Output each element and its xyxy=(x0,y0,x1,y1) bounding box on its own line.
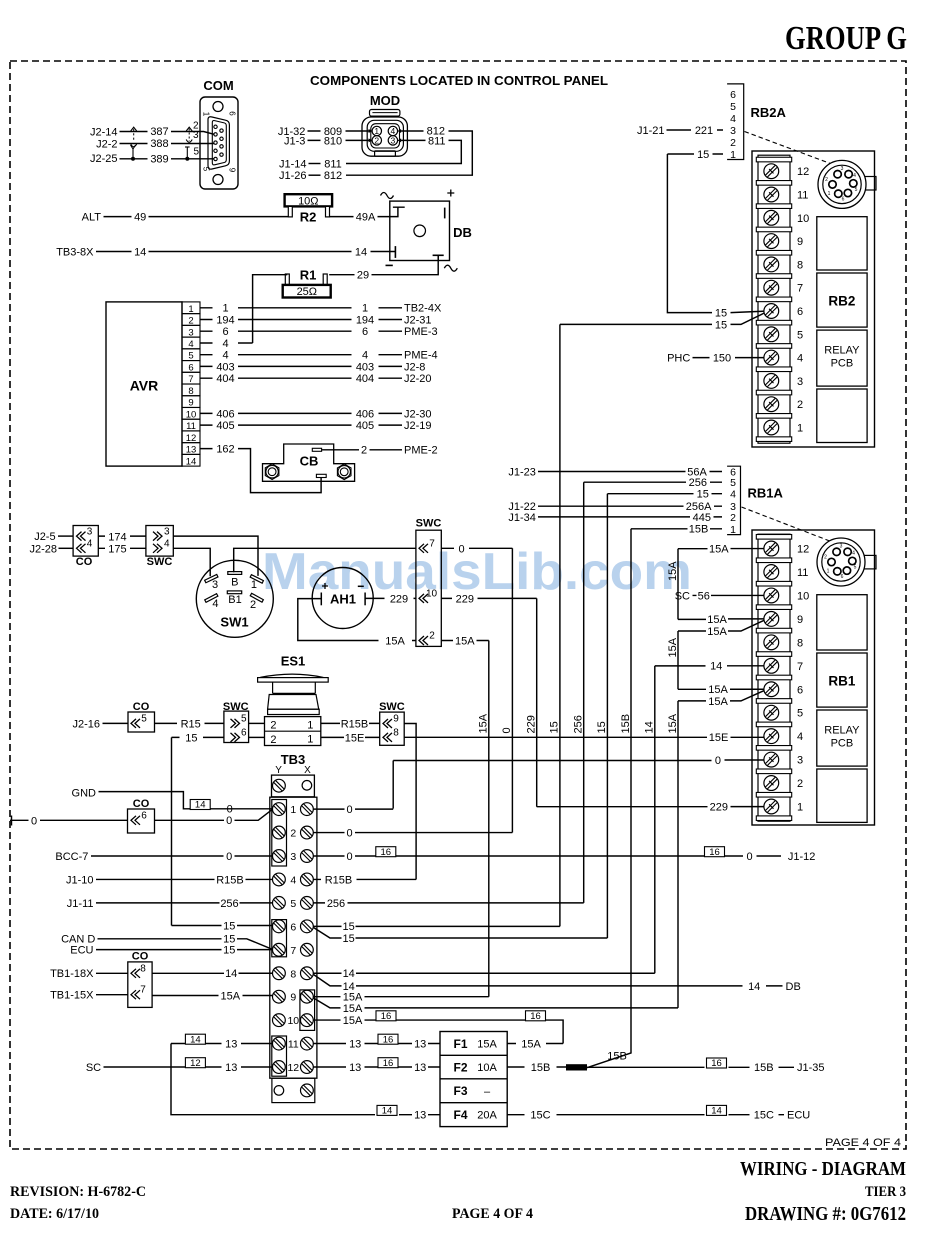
svg-text:229: 229 xyxy=(456,593,474,605)
svg-text:6: 6 xyxy=(290,921,296,933)
svg-text:4: 4 xyxy=(730,489,736,501)
svg-text:7: 7 xyxy=(290,945,296,957)
svg-text:15: 15 xyxy=(342,921,354,933)
svg-text:405: 405 xyxy=(216,420,234,432)
svg-text:15: 15 xyxy=(185,732,197,744)
wire J1-32 809 to MOD pin1 xyxy=(308,130,370,132)
fuse block F1-F4 body xyxy=(440,1032,507,1127)
svg-text:15A: 15A xyxy=(667,561,679,581)
svg-text:F1: F1 xyxy=(454,1037,468,1051)
svg-text:3: 3 xyxy=(391,136,396,146)
svg-text:256: 256 xyxy=(573,715,585,733)
wire J1-23 56A to RB1A-6 xyxy=(538,471,722,473)
svg-text:1: 1 xyxy=(730,524,736,536)
wire J1-14 811 label row xyxy=(309,163,321,165)
svg-text:AH1: AH1 xyxy=(330,592,356,607)
connector SWC block (9/8) xyxy=(380,712,405,745)
pushbutton ES1 stem xyxy=(273,682,316,693)
svg-text:405: 405 xyxy=(356,420,374,432)
svg-text:49: 49 xyxy=(134,212,146,224)
svg-text:15B: 15B xyxy=(607,1051,627,1063)
svg-text:10: 10 xyxy=(797,590,809,602)
terminal block TB3 body xyxy=(270,797,317,1078)
svg-text:7: 7 xyxy=(140,985,146,996)
svg-text:PCB: PCB xyxy=(831,358,854,370)
svg-text:3: 3 xyxy=(730,125,736,137)
connector RB1A bracket xyxy=(727,466,740,534)
svg-text:4: 4 xyxy=(164,539,170,550)
svg-text:5: 5 xyxy=(241,713,247,724)
wire CO5 R15 to SWC5 xyxy=(155,722,224,724)
svg-text:Y: Y xyxy=(275,765,282,776)
svg-text:J2-16: J2-16 xyxy=(72,718,100,730)
svg-text:WIRING - DIAGRAM: WIRING - DIAGRAM xyxy=(740,1158,906,1180)
svg-text:2: 2 xyxy=(797,778,803,790)
wire TB3-1 0 riser xyxy=(392,761,394,809)
svg-text:15C: 15C xyxy=(530,1110,550,1122)
pushbutton ES1 cap xyxy=(260,674,323,677)
svg-text:2: 2 xyxy=(730,512,736,524)
svg-text:15A: 15A xyxy=(708,696,728,708)
svg-text:9: 9 xyxy=(797,614,803,626)
svg-text:13: 13 xyxy=(414,1110,426,1122)
wire AVR 405 to J2-19 xyxy=(200,424,402,426)
svg-text:2: 2 xyxy=(270,734,276,746)
wire PHC 150 to RB2 t4 xyxy=(693,357,764,359)
svg-text:R15B: R15B xyxy=(325,874,353,886)
svg-text:ES1: ES1 xyxy=(281,654,306,669)
svg-text:14: 14 xyxy=(711,1106,722,1117)
svg-text:15A: 15A xyxy=(667,637,679,657)
svg-text:8: 8 xyxy=(797,259,803,271)
wire SWC10 to bus 229 xyxy=(441,597,536,599)
svg-text:3: 3 xyxy=(841,166,844,172)
wire J2-2 to COM pin3 (388) xyxy=(120,143,215,145)
svg-text:TB1-18X: TB1-18X xyxy=(50,968,94,980)
wire CO6 0 to TB3-1 diagonal xyxy=(155,809,273,820)
wire 14 to RB1 t7 xyxy=(655,665,764,667)
svg-text:10A: 10A xyxy=(477,1062,497,1074)
svg-text:TB3-8X: TB3-8X xyxy=(56,246,94,258)
svg-text:5: 5 xyxy=(854,565,857,571)
breaker CB bottom terminal xyxy=(316,474,326,477)
relay board RB1 inner box 2 (RB1) xyxy=(817,653,867,707)
wire MOD pin4 to J1-26 (812) xyxy=(346,131,472,175)
svg-text:15: 15 xyxy=(697,489,709,501)
wire TB3-8X 14 to DB xyxy=(96,251,395,253)
svg-text:BCC-7: BCC-7 xyxy=(55,851,88,863)
svg-text:RELAY: RELAY xyxy=(824,345,860,357)
svg-text:14: 14 xyxy=(225,968,237,980)
wire AVR 6 to PME-3 xyxy=(200,330,402,332)
wire J2-16 to CO5 xyxy=(103,722,129,724)
svg-text:0: 0 xyxy=(458,543,464,555)
svg-text:8: 8 xyxy=(140,963,146,974)
svg-text:RB1A: RB1A xyxy=(748,486,784,501)
svg-text:2: 2 xyxy=(361,445,367,457)
svg-text:1: 1 xyxy=(828,191,831,197)
wire CO8 14 to TB3-8 xyxy=(152,972,272,974)
svg-text:4: 4 xyxy=(797,731,803,743)
svg-text:1: 1 xyxy=(362,303,368,315)
svg-text:387: 387 xyxy=(150,126,168,138)
svg-text:15: 15 xyxy=(549,721,561,733)
breaker CB left lug xyxy=(265,464,279,480)
svg-text:229: 229 xyxy=(526,715,538,733)
svg-text:SC: SC xyxy=(675,590,690,602)
switch SW1 body xyxy=(196,560,273,637)
svg-text:9: 9 xyxy=(228,168,237,173)
svg-text:J1-3: J1-3 xyxy=(284,136,305,148)
svg-text:194: 194 xyxy=(356,314,374,326)
svg-text:6: 6 xyxy=(797,684,803,696)
svg-text:SWC: SWC xyxy=(223,701,249,713)
svg-text:–: – xyxy=(484,1086,491,1098)
svg-text:TB1-15X: TB1-15X xyxy=(50,990,94,1002)
svg-text:2: 2 xyxy=(825,177,828,183)
svg-text:0: 0 xyxy=(746,851,752,863)
svg-text:15: 15 xyxy=(596,721,608,733)
svg-text:811: 811 xyxy=(324,158,342,170)
wire F4 15C to ECU xyxy=(507,1114,784,1116)
connector COM pins xyxy=(214,125,217,128)
wire SW1 B to SWC7 (0 net) xyxy=(234,548,416,572)
svg-text:15A: 15A xyxy=(478,713,490,733)
wire GND to TB3-1 xyxy=(99,792,273,809)
svg-text:13: 13 xyxy=(414,1062,426,1074)
svg-text:6: 6 xyxy=(730,89,736,101)
pushbutton ES1 contact block xyxy=(265,717,321,746)
svg-text:PCB: PCB xyxy=(831,738,854,750)
breaker CB top terminal xyxy=(312,448,321,451)
svg-text:DRAWING #: 0G7612: DRAWING #: 0G7612 xyxy=(745,1203,906,1225)
connector CO block (8/7) xyxy=(128,962,152,1008)
svg-text:5: 5 xyxy=(730,477,736,489)
svg-text:MOD: MOD xyxy=(370,93,400,108)
svg-text:SC: SC xyxy=(86,1062,101,1074)
svg-text:15E: 15E xyxy=(709,732,729,744)
wire AVR pin13 162 to CB xyxy=(200,449,321,493)
svg-text:ALT: ALT xyxy=(82,212,102,224)
svg-text:F4: F4 xyxy=(454,1108,468,1122)
svg-text:10: 10 xyxy=(797,213,809,225)
wire AVR 406 to J2-30 xyxy=(200,412,402,414)
hourmeter AH1 terminals xyxy=(320,593,322,606)
svg-text:RELAY: RELAY xyxy=(824,725,860,737)
wire border 0 to CO6 xyxy=(10,816,128,826)
rectifier DB AC mark bottom xyxy=(444,265,457,271)
svg-text:J1-26: J1-26 xyxy=(279,170,307,182)
svg-text:RB1: RB1 xyxy=(828,674,855,689)
wire MOD pin3 to J1-14 (811) xyxy=(346,140,461,163)
svg-text:TB2-4X: TB2-4X xyxy=(404,303,442,315)
shield drain symbol right xyxy=(186,147,188,159)
connector MOD wire arrowheads xyxy=(369,129,373,133)
svg-text:4: 4 xyxy=(87,539,93,550)
svg-text:256: 256 xyxy=(327,898,345,910)
svg-text:403: 403 xyxy=(216,361,234,373)
svg-text:2: 2 xyxy=(374,136,379,146)
svg-text:15A: 15A xyxy=(343,992,363,1004)
bus wire 15B (x631) xyxy=(587,529,631,1068)
svg-text:RB2A: RB2A xyxy=(751,105,787,120)
svg-text:SWC: SWC xyxy=(416,518,442,530)
rectifier DB plus mark xyxy=(447,190,454,197)
connector CO block (6) xyxy=(128,809,155,833)
svg-text:1: 1 xyxy=(307,734,313,746)
svg-text:1: 1 xyxy=(730,149,736,161)
svg-text:5: 5 xyxy=(797,708,803,720)
wire AVR 4 to PME-4 xyxy=(200,354,402,356)
svg-text:162: 162 xyxy=(216,444,234,456)
svg-text:6: 6 xyxy=(222,326,228,338)
svg-text:ECU: ECU xyxy=(787,1110,810,1122)
svg-text:15: 15 xyxy=(342,933,354,945)
wire R2 to DB (49A) xyxy=(330,207,405,216)
terminal block TB3 header box xyxy=(272,775,315,797)
breaker CB right lug xyxy=(337,464,351,480)
svg-text:J2-19: J2-19 xyxy=(404,420,432,432)
svg-text:194: 194 xyxy=(216,314,234,326)
svg-text:6: 6 xyxy=(228,111,237,116)
relay board RB2 inner box 3 (RELAY PCB) xyxy=(817,330,867,386)
svg-text:14: 14 xyxy=(382,1106,393,1117)
terminal block TB3 jumper 9-10 right xyxy=(300,990,315,1031)
svg-text:2: 2 xyxy=(250,599,256,611)
wire J1-34 445 to RB1A-2 xyxy=(538,516,722,518)
svg-text:J1-12: J1-12 xyxy=(788,851,816,863)
wire SWC 174 to SW1 pin1 xyxy=(173,536,258,576)
dashed leader RB2A to socket xyxy=(745,132,834,165)
wire AVR 194 to J2-31 xyxy=(200,319,402,321)
svg-text:404: 404 xyxy=(356,373,374,385)
svg-text:14: 14 xyxy=(186,456,197,467)
wire J2-28 to CO xyxy=(59,547,74,549)
svg-text:14: 14 xyxy=(644,721,656,733)
svg-text:13: 13 xyxy=(225,1038,237,1050)
terminal block TB3 jumper 6-7 xyxy=(272,920,287,957)
svg-text:1: 1 xyxy=(827,569,830,575)
terminal block TB3 jumper 11-12 xyxy=(272,1036,287,1076)
svg-text:6: 6 xyxy=(797,306,803,318)
svg-text:PHC: PHC xyxy=(667,353,690,365)
wire bus15 to RB1A-4 xyxy=(607,493,722,495)
wire 15A to RB1 t9 straight xyxy=(678,618,764,621)
connector CO block (5) xyxy=(128,712,155,732)
svg-text:PME-2: PME-2 xyxy=(404,445,438,457)
relay board RB1 socket xyxy=(863,555,877,569)
wire J2-25 to COM pin5 (389) xyxy=(120,158,215,160)
svg-text:12: 12 xyxy=(287,1062,299,1074)
wire 15 from bus to RB2 t6 xyxy=(560,313,764,324)
connector COM D-sub shell xyxy=(208,117,229,169)
wire TB3-8 14 diagonal to DB xyxy=(314,975,783,986)
switch SW1 terminal 3 xyxy=(205,574,218,582)
svg-text:RB2: RB2 xyxy=(828,294,855,309)
svg-text:J2-5: J2-5 xyxy=(34,531,55,543)
svg-text:SWC: SWC xyxy=(147,556,173,568)
svg-text:SWC: SWC xyxy=(379,701,405,713)
svg-text:DATE: 6/17/10: DATE: 6/17/10 xyxy=(10,1206,99,1222)
svg-text:15: 15 xyxy=(715,319,727,331)
svg-text:J1-23: J1-23 xyxy=(508,467,536,479)
svg-text:5: 5 xyxy=(855,187,858,193)
svg-text:11: 11 xyxy=(797,567,808,579)
svg-text:12: 12 xyxy=(190,1058,201,1069)
svg-text:J2-2: J2-2 xyxy=(96,139,117,151)
svg-text:0: 0 xyxy=(226,851,232,863)
svg-text:PME-3: PME-3 xyxy=(404,326,438,338)
svg-text:0: 0 xyxy=(346,851,352,863)
wire 15A to RB1 t6 diagonal xyxy=(678,691,764,701)
svg-text:15A: 15A xyxy=(221,990,241,1002)
svg-text:14: 14 xyxy=(134,246,146,258)
wire AH1 minus to SWC10 (229) xyxy=(365,597,416,599)
wire TB3-8 14 to bus14 xyxy=(314,972,655,974)
svg-text:15: 15 xyxy=(223,945,235,957)
svg-text:J2-20: J2-20 xyxy=(404,373,432,385)
svg-text:14: 14 xyxy=(190,1034,201,1045)
svg-text:16: 16 xyxy=(711,1058,722,1069)
wire TB3-6 15 to bus15 xyxy=(314,925,560,927)
svg-text:J1-11: J1-11 xyxy=(67,898,94,910)
bus wire 229 (x537) xyxy=(536,598,538,806)
connector SWC block (7/10/2) xyxy=(416,530,441,646)
svg-text:221: 221 xyxy=(695,125,713,137)
relay board RB1 inner box 1 xyxy=(817,595,867,650)
svg-text:6: 6 xyxy=(841,574,844,580)
connector CO block (3/4) xyxy=(73,526,98,557)
svg-text:3: 3 xyxy=(193,130,199,141)
svg-text:229: 229 xyxy=(390,593,408,605)
svg-text:15B: 15B xyxy=(531,1062,551,1074)
svg-text:GROUP G: GROUP G xyxy=(785,20,907,57)
twisted pair symbol left xyxy=(131,127,137,131)
svg-text:2: 2 xyxy=(290,828,296,840)
bus wire 0 (x512) xyxy=(511,548,513,832)
svg-text:10Ω: 10Ω xyxy=(298,195,318,207)
svg-text:COM: COM xyxy=(203,78,233,93)
svg-text:4: 4 xyxy=(362,350,368,362)
svg-text:5: 5 xyxy=(290,898,296,910)
svg-text:TB3: TB3 xyxy=(281,752,306,767)
svg-text:812: 812 xyxy=(324,170,342,182)
svg-text:R1: R1 xyxy=(300,268,317,283)
svg-text:CO: CO xyxy=(76,556,93,568)
svg-text:6: 6 xyxy=(141,810,147,821)
hourmeter AH1 body xyxy=(312,568,373,629)
svg-text:GND: GND xyxy=(72,787,97,799)
svg-text:4: 4 xyxy=(797,353,803,365)
svg-text:5: 5 xyxy=(797,329,803,341)
svg-text:403: 403 xyxy=(356,361,374,373)
svg-text:4: 4 xyxy=(290,874,296,886)
wire F1 15A to bus xyxy=(507,1043,563,1045)
svg-text:J2-30: J2-30 xyxy=(404,408,432,420)
svg-text:15A: 15A xyxy=(707,614,727,626)
svg-text:810: 810 xyxy=(324,136,342,148)
wire CB to PME-2 (2) xyxy=(322,449,402,451)
wire TB1-18X to CO8 xyxy=(96,972,128,974)
svg-text:15A: 15A xyxy=(477,1039,497,1051)
wire J1-10 R15B to TB3-4 xyxy=(96,878,272,880)
svg-text:2: 2 xyxy=(797,399,803,411)
svg-text:256: 256 xyxy=(689,477,707,489)
svg-text:1: 1 xyxy=(307,719,313,731)
relay board RB2 outer box xyxy=(752,151,875,447)
svg-text:16: 16 xyxy=(530,1011,541,1022)
rectifier DB terminals xyxy=(444,208,446,219)
wire CO7 15A to TB3-9 xyxy=(152,995,272,997)
svg-text:404: 404 xyxy=(216,373,234,385)
svg-text:150: 150 xyxy=(713,353,731,365)
connector COM body xyxy=(200,97,238,189)
bus wire 14 (x655) xyxy=(654,666,656,973)
wire 15A to RB1 t12 xyxy=(678,548,764,550)
wire 15A to RB1 t9 diagonal xyxy=(678,620,764,631)
svg-text:CO: CO xyxy=(133,701,150,713)
wire AVR pin4 row (4) xyxy=(200,342,253,344)
svg-text:16: 16 xyxy=(381,847,392,858)
bus wire 15A (x678) segment a xyxy=(677,549,679,620)
svg-text:229: 229 xyxy=(710,802,728,814)
svg-text:15C: 15C xyxy=(754,1110,774,1122)
pushbutton ES1 body xyxy=(268,695,319,710)
svg-text:14: 14 xyxy=(195,800,206,811)
svg-text:15A: 15A xyxy=(343,1015,363,1027)
svg-text:DB: DB xyxy=(786,981,801,993)
connector MOD pins xyxy=(372,126,381,135)
svg-text:14: 14 xyxy=(355,246,367,258)
svg-text:15A: 15A xyxy=(521,1038,541,1050)
svg-text:8: 8 xyxy=(393,727,399,738)
svg-text:15: 15 xyxy=(697,149,709,161)
wire SWC7 to bus 0 xyxy=(441,547,512,549)
resistor R2 xyxy=(285,194,333,206)
svg-text:2: 2 xyxy=(730,137,736,149)
svg-text:J2-25: J2-25 xyxy=(90,153,118,165)
terminal block TB3 jumper 1-3 xyxy=(272,800,287,867)
svg-text:15B: 15B xyxy=(620,714,632,734)
relay board RB2 inner box 2 (RB2) xyxy=(817,273,867,327)
svg-text:6: 6 xyxy=(241,727,247,738)
wire SC 13 to TB3-12 xyxy=(104,1066,273,1068)
svg-text:11: 11 xyxy=(797,190,808,202)
svg-text:3: 3 xyxy=(212,579,218,591)
wire J1-21 221 to RB2A-3 xyxy=(667,129,724,131)
svg-text:SW1: SW1 xyxy=(220,615,248,630)
svg-text:0: 0 xyxy=(346,828,352,840)
svg-text:PME-4: PME-4 xyxy=(404,350,438,362)
wire TB3-5 256 to bus256 xyxy=(314,902,584,904)
wire SWC6 to ES1 xyxy=(249,736,265,738)
svg-text:J1-35: J1-35 xyxy=(797,1062,825,1074)
wire splice to J1-35 xyxy=(587,1066,794,1068)
rectifier DB AC mark top xyxy=(381,193,394,199)
svg-text:256: 256 xyxy=(220,898,238,910)
svg-text:2: 2 xyxy=(824,555,827,561)
svg-text:J2-31: J2-31 xyxy=(404,314,432,326)
svg-text:5: 5 xyxy=(141,713,147,724)
wire J1-22 256A to RB1A-3 xyxy=(538,505,722,507)
svg-text:0: 0 xyxy=(226,815,232,827)
switch SW1 terminal 4 xyxy=(205,594,218,603)
svg-text:10: 10 xyxy=(287,1015,299,1027)
svg-text:9: 9 xyxy=(290,992,296,1004)
svg-text:14: 14 xyxy=(343,968,355,980)
svg-text:8: 8 xyxy=(290,968,296,980)
svg-text:4: 4 xyxy=(222,350,228,362)
